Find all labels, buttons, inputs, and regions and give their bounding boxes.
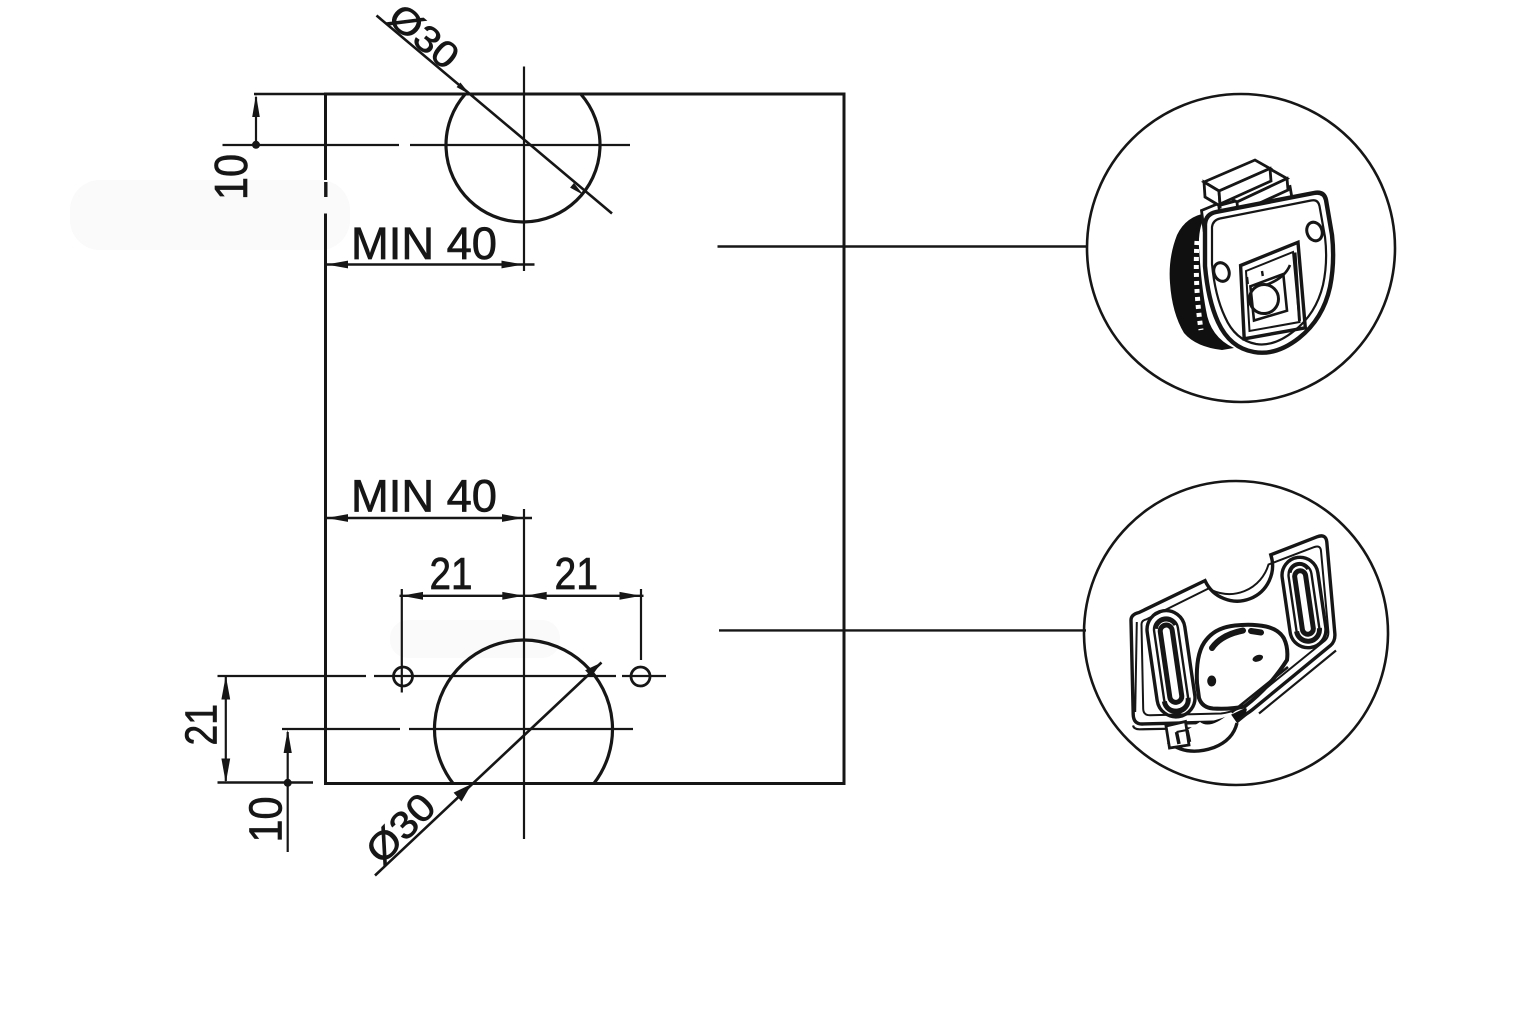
svg-text:Ø30: Ø30 [381, 0, 467, 77]
svg-text:MIN 40: MIN 40 [351, 218, 497, 269]
svg-text:21: 21 [430, 548, 473, 599]
svg-text:Ø30: Ø30 [358, 785, 445, 872]
svg-text:10: 10 [240, 797, 292, 843]
svg-text:21: 21 [176, 704, 227, 746]
svg-text:21: 21 [555, 548, 599, 599]
svg-text:MIN 40: MIN 40 [351, 471, 497, 522]
svg-text:10: 10 [205, 154, 257, 200]
